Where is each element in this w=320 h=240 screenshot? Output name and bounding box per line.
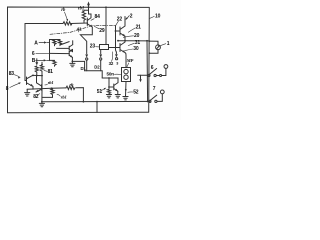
- wire: switch 6 to terminal: [156, 68, 166, 75]
- transistor T20 emitter with arrow: [120, 33, 125, 36]
- svg-text:A: A: [34, 40, 38, 46]
- svg-text:30: 30: [133, 46, 139, 52]
- wire: Rb bottom: [54, 65, 56, 68]
- contact B arrow: [35, 59, 38, 66]
- switch 6 pivot contact: [148, 74, 150, 76]
- contact D1 circle: [86, 58, 88, 60]
- switch 6 lever: [149, 69, 156, 75]
- wire: node to D1 bus: [72, 61, 84, 70]
- label 52: [128, 89, 139, 95]
- switch 7 lever: [150, 95, 157, 100]
- resistor Ra1 (vertical zigzag): [53, 40, 56, 45]
- ground (Q51 emitter): [115, 95, 120, 98]
- svg-text:41: 41: [77, 26, 82, 31]
- wire: resistor top rail y=39.5: [50, 39, 61, 41]
- node: junction x=147.6 y=101.5: [147, 101, 149, 103]
- transistor TA2 base bar: [68, 51, 70, 56]
- transistor Q8 emitter with arrow: [27, 83, 34, 87]
- svg-text:32: 32: [109, 61, 114, 66]
- transistor TA1 base wire: [57, 47, 70, 49]
- transistor T84 base bar: [86, 18, 88, 26]
- contact D1 arrow: [85, 54, 88, 57]
- label 51: [97, 88, 106, 95]
- transistor T30 collector: [120, 41, 125, 46]
- wire: bus y=70.8: [85, 71, 103, 78]
- label 22: [116, 17, 122, 26]
- resistor R52a (vertical zigzag): [51, 88, 54, 95]
- svg-text:50n: 50n: [107, 72, 115, 77]
- frame: outer circuit boundary box 10: [8, 7, 150, 113]
- label rb1 (lower): [57, 94, 67, 99]
- label rb: [61, 8, 68, 21]
- node: junction x=51.5 y=88.3: [51, 87, 53, 89]
- resistor r (horizontal zigzag): [66, 86, 75, 89]
- label 1: [160, 41, 170, 47]
- wire: horizontal base rail y=23.5: [25, 22, 88, 25]
- label rb1 (mid): [45, 80, 54, 85]
- wire: vertical x=115.5 inner bus: [115, 26, 118, 53]
- label 50n: [107, 72, 121, 77]
- transistor T20 base bar: [119, 27, 121, 35]
- resistor rb1 (vertical zigzag): [82, 10, 85, 22]
- relay coil circle b: [124, 75, 128, 79]
- meter 1 circle: [156, 45, 161, 50]
- svg-text:21: 21: [136, 25, 142, 31]
- dash-dot boundary line: [50, 26, 116, 35]
- label rb (lower): [70, 82, 75, 87]
- meter 1 needle: [157, 45, 160, 48]
- transistor Q42 emitter with arrow: [36, 89, 42, 92]
- transistor T20 base wire: [116, 30, 121, 32]
- ground (Q51 base): [106, 95, 111, 98]
- transistor Q8 collector: [27, 75, 34, 79]
- wire: relay box bottom lead: [125, 82, 128, 97]
- wire: collector node rail y=75: [33, 74, 42, 76]
- transistor Q51 base bar: [113, 84, 115, 90]
- label 29: [94, 26, 105, 34]
- node: junction y=40.7 x=125: [124, 40, 126, 42]
- svg-text:D2: D2: [94, 64, 100, 69]
- wire: vertical x=106 from frame to box 23: [105, 7, 107, 44]
- transistor TA1 collector: [69, 45, 73, 47]
- wire: Q8 emitter drop to y=89.3: [32, 86, 34, 89]
- transistor TA1 base bar: [68, 46, 70, 50]
- svg-text:3: 3: [116, 61, 118, 65]
- wire: contact D2 drop: [100, 60, 102, 71]
- svg-text:rb1: rb1: [48, 80, 54, 85]
- bottom rail y=101.8: [42, 100, 150, 102]
- resistor Ra2 (vertical zigzag): [58, 40, 61, 45]
- node: junction x=41.9 y=101.8: [41, 101, 43, 103]
- relay coil circle a: [124, 69, 128, 73]
- svg-text:81: 81: [48, 69, 54, 75]
- label 41: [77, 26, 82, 32]
- wire: Rb top: [50, 59, 55, 61]
- wire: R81 top to bus: [41, 62, 43, 65]
- contact D2 circle: [100, 58, 102, 60]
- node: junction frame right y=53.2: [148, 52, 150, 54]
- label MP: [126, 58, 134, 67]
- box 23: [100, 45, 109, 50]
- node: junction x=72.4 y=61.4: [72, 61, 74, 63]
- ground (relay): [123, 97, 128, 100]
- wire: y=88 rail from node to resistor r: [52, 87, 67, 89]
- transistor TA1 emitter with arrow: [69, 49, 72, 51]
- label 23: [90, 44, 100, 50]
- node: junction x=83.4 y=101.7: [83, 101, 85, 103]
- wire: TA2 emitter down to ground node: [71, 57, 73, 61]
- transistor T30 base bar: [119, 44, 121, 52]
- wire: Q51 emitter to ground: [117, 91, 119, 94]
- transistor TA2 emitter with arrow: [69, 55, 72, 57]
- resistor Q51 base (vertical zigzag): [107, 87, 110, 95]
- node: junction x=97 y=101.6: [96, 101, 98, 103]
- contact 32 arrow: [115, 52, 118, 57]
- transistor Q42 base bar: [41, 85, 43, 91]
- label 2 with leader arrow: [126, 13, 133, 20]
- wire: relay row to feed line y=75.3: [138, 74, 148, 76]
- label 20: [123, 33, 139, 39]
- svg-text:23: 23: [90, 44, 96, 50]
- node: junction x=36.7 y=75.6: [36, 75, 38, 77]
- label 84: [91, 14, 100, 20]
- svg-text:29: 29: [99, 28, 105, 34]
- wire: rb1 top jog to supply line: [84, 9, 89, 11]
- svg-text:6: 6: [32, 51, 35, 57]
- transistor T84 emitter with arrow: [87, 24, 92, 27]
- node: junction frame top x=106: [105, 6, 107, 8]
- svg-text:52: 52: [133, 89, 139, 95]
- svg-text:31: 31: [135, 40, 141, 46]
- wire: T30 emitter to relay box top: [125, 53, 126, 68]
- transistor TA2 base wire: [50, 52, 70, 54]
- resistor rb (horizontal zigzag): [63, 22, 72, 25]
- wire: lower feed rail y=78: [102, 78, 118, 83]
- wire: emitter rail y=89: [27, 88, 51, 89]
- node: junction x=109 y=87: [108, 86, 110, 88]
- wire: R52a bottom leftward y=97.4: [42, 96, 53, 98]
- label 21: [128, 25, 141, 33]
- svg-text:2: 2: [130, 13, 133, 19]
- label 32 with curved leader: [109, 52, 114, 66]
- switch 7 open contact: [155, 100, 157, 102]
- node: junction x=42 y=64.6: [41, 64, 43, 66]
- svg-text:rb1: rb1: [78, 6, 84, 11]
- svg-text:84: 84: [95, 14, 101, 20]
- ground (TA2 emitter): [70, 61, 75, 66]
- svg-text:MP: MP: [126, 58, 134, 63]
- resistor Rb (vertical zigzag): [53, 60, 56, 65]
- wire: rail to frame bottom x=97: [96, 102, 98, 113]
- label 10: [150, 14, 161, 20]
- meter 1 branch wires: [149, 41, 158, 53]
- svg-text:7: 7: [153, 86, 156, 92]
- svg-text:1: 1: [167, 41, 170, 47]
- wire: Q51 base drop x=109: [108, 78, 110, 87]
- ground (Q8 emitter): [25, 89, 30, 96]
- contact 32 circle: [116, 58, 118, 60]
- wire: vertical x=25 from y=23.5 down to Q8 base: [24, 24, 26, 81]
- wire: T84 emitter down, jog left, down to contact D1: [80, 27, 92, 54]
- label 30: [125, 46, 139, 52]
- svg-text:10: 10: [155, 14, 161, 20]
- node: junction x=115.5 y=31: [115, 30, 117, 32]
- svg-text:8: 8: [6, 86, 9, 92]
- svg-text:83: 83: [9, 71, 15, 77]
- label B with dash: [32, 58, 50, 64]
- svg-text:6: 6: [151, 65, 154, 71]
- switch 7 pivot contact: [149, 100, 151, 102]
- svg-text:51: 51: [97, 89, 103, 95]
- ground (bottom rail left): [39, 102, 44, 107]
- switch 6 second contact: [160, 75, 162, 77]
- relay box 50n: [122, 68, 131, 82]
- label 6 with leader: [32, 51, 49, 57]
- transistor T84 collector: [87, 14, 91, 21]
- label 82: [33, 94, 39, 100]
- node: junction frame right y=41: [148, 40, 150, 42]
- wire: TA1 emitter to TA2 collector: [72, 49, 74, 51]
- terminal 7 circle: [160, 90, 164, 94]
- label 31: [128, 40, 140, 46]
- svg-text:D1: D1: [81, 66, 87, 71]
- transistor Q8 base wire: [25, 80, 27, 82]
- wire: TA collector riser: [72, 41, 74, 45]
- wire: resistor r to drop x=83.4: [76, 88, 83, 102]
- wire: T20 emitter to output rail y=40.7: [124, 36, 126, 40]
- resistor R81 (vertical zigzag): [40, 65, 43, 72]
- transistor Q42 collector: [37, 75, 42, 86]
- transistor Q51 emitter with arrow: [114, 89, 118, 92]
- wire: output rail y=40.7 to right frame: [118, 40, 149, 42]
- node: junction x=109 y=78: [108, 77, 110, 79]
- label rb1: [78, 6, 84, 12]
- node: junction x=147 y=40.8: [146, 40, 148, 42]
- transistor T30 emitter with arrow: [120, 50, 125, 53]
- node: junction x=118 y=40.7: [117, 40, 119, 42]
- contact arrow small (x=140.5): [139, 75, 142, 82]
- switch 6 open contact: [154, 74, 156, 76]
- wire: contact D1 drop to bus y=70.8: [86, 60, 88, 71]
- contact D2 arrow below box 23: [99, 50, 102, 58]
- node: junction frame top x=88.5: [88, 6, 90, 8]
- wire: R81 bottom to node 75 and down to Q42: [41, 72, 43, 90]
- terminal 6 circle: [164, 65, 168, 69]
- transistor T30 base wire from box 23: [109, 47, 121, 49]
- transistor Q51 collector: [114, 83, 118, 86]
- wire: vertical feed x=147 down to bottom rail: [146, 41, 149, 102]
- node: junction x=42 y=75: [41, 75, 43, 77]
- wire: switch 7 to terminal: [157, 94, 162, 102]
- label A with arrow: [34, 40, 49, 46]
- node: junction x=125.7 y=89.7: [125, 89, 127, 91]
- transistor TA2 collector: [69, 49, 72, 52]
- wire: input bus x=49.5: [49, 40, 51, 61]
- label 81: [44, 69, 53, 75]
- transistor Q8 base bar: [26, 77, 28, 85]
- svg-text:B: B: [32, 58, 36, 64]
- transistor Q51 base wire: [109, 86, 114, 88]
- wire: Ra bottoms diagonal to mirror top: [55, 42, 70, 46]
- svg-text:rb1: rb1: [61, 95, 67, 100]
- transistor T20 collector: [120, 17, 125, 30]
- label 8: [6, 82, 21, 92]
- label 83: [9, 71, 21, 79]
- wire: Q42 down to bottom rail: [41, 90, 43, 102]
- supply arrow (top, x=88.5): [87, 1, 90, 14]
- svg-text:20: 20: [134, 33, 140, 39]
- resistor R37 (vertical zigzag): [35, 66, 38, 75]
